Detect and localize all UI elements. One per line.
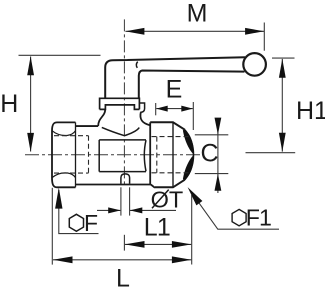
handle ball: [243, 53, 266, 76]
nut shading crescent upper: [183, 129, 194, 154]
vertical stem centerline: [123, 19, 125, 185]
thread hidden lines left port: [54, 136, 89, 173]
svg-text:L: L: [116, 264, 130, 292]
dimension L1: [124, 213, 191, 250]
hex end cap (left): [52, 122, 76, 187]
neck right flare: [140, 112, 150, 125]
packing gland flange: [100, 98, 140, 109]
lever handle: [105, 57, 245, 98]
neck left flare: [98, 109, 105, 126]
svg-text:L1: L1: [144, 213, 170, 241]
body: [76, 122, 156, 187]
label F1 with hex symbol: [188, 187, 279, 230]
svg-text:F1: F1: [246, 204, 271, 230]
nut shading crescent lower: [183, 155, 194, 180]
svg-text:OT: OT: [151, 186, 184, 212]
svg-text:H1: H1: [296, 97, 325, 125]
ball chamber: [99, 140, 146, 172]
svg-text:M: M: [187, 0, 208, 27]
dimension H: [0, 55, 100, 152]
svg-text:E: E: [166, 75, 183, 103]
ball top arc: [102, 127, 140, 135]
dimension H1: [246, 58, 325, 153]
svg-text:C: C: [201, 140, 219, 168]
ear tab: [139, 103, 144, 112]
dimension OT: [97, 186, 183, 215]
nut hidden bore lines: [152, 137, 191, 173]
dimension C: [195, 118, 229, 193]
svg-text:H: H: [0, 90, 18, 118]
dimension L: [52, 188, 191, 292]
label F with hex symbol: [55, 188, 98, 237]
svg-text:F: F: [84, 210, 98, 236]
dimension E: [156, 75, 194, 130]
dimension M: [125, 0, 264, 51]
union nut: [150, 122, 193, 187]
drain boss dome: [121, 174, 130, 184]
horizontal centerline: [25, 154, 201, 156]
